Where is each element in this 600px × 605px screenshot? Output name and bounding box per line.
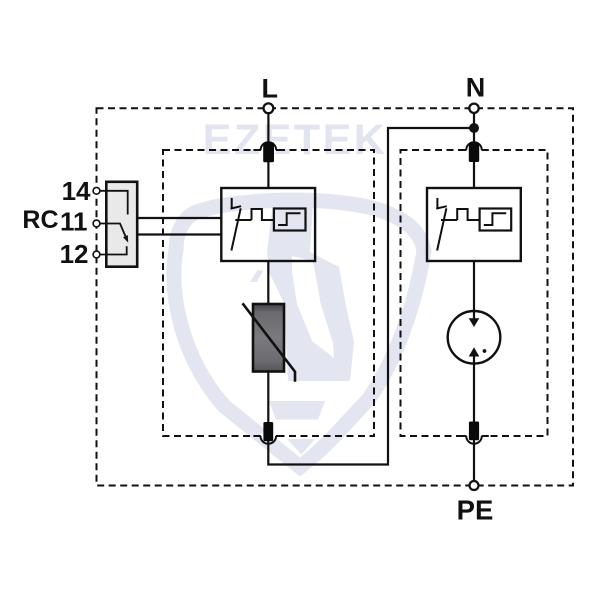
terminal N: [469, 104, 478, 113]
disconnector arc on N conductor (top): [459, 142, 489, 153]
wire N input: [473, 113, 475, 188]
svg-text:EZETEK: EZETEK: [203, 116, 388, 164]
disconnector arc on PE conductor (bottom): [459, 433, 489, 444]
U2 trigger step waveform: [484, 213, 506, 225]
wire gas discharge tube to PE fuse: [473, 356, 475, 421]
fuse disconnector N top: [469, 143, 479, 163]
gas discharge tube upper arrow: [469, 318, 480, 327]
terminal L: [264, 103, 274, 113]
svg-text:RC: RC: [22, 206, 58, 234]
U1 trigger box: [274, 209, 306, 231]
wire N SPD box to gas discharge tube: [473, 261, 475, 319]
wire PE fuse to PE terminal: [473, 440, 475, 481]
terminal circle 12: [93, 251, 100, 258]
U1 trigger step waveform: [278, 213, 300, 225]
U2 surge pulse waveform: [457, 209, 479, 220]
wire pair RC unit to SPD box: [137, 218, 221, 235]
outer dashed enclosure border: [97, 108, 574, 485]
fuse disconnector PE bottom: [469, 422, 479, 441]
U2 trigger box: [480, 209, 512, 231]
SPD spark-gap module U2 (N-PE): [427, 188, 521, 261]
RC contact 14 lead: [100, 191, 128, 215]
U1 switch blade: [231, 208, 240, 250]
remote signalling contact unit RC: [100, 182, 137, 267]
gas discharge tube lower arrow: [469, 347, 480, 356]
svg-text:L: L: [261, 73, 278, 103]
RC common 11 lead with moving contact: [100, 224, 126, 238]
wire varistor to bottom fuse: [267, 372, 269, 423]
U2 connection to trigger: [441, 219, 457, 221]
RC contact 12 lead: [100, 246, 127, 254]
disconnector arc on L branch (bottom): [253, 433, 283, 444]
wire from N junction to bottom of varistor branch: [268, 128, 474, 465]
gas discharge tube circle: [448, 311, 501, 364]
U2 enclosure box: [427, 188, 521, 261]
gas discharge tube dot: [483, 349, 487, 353]
junction node on N: [469, 123, 479, 133]
inner dashed box N-PE protection module: [401, 150, 548, 436]
U1 surge pulse waveform: [252, 209, 274, 220]
svg-text:11: 11: [60, 207, 88, 237]
U1 enclosure box: [221, 188, 315, 261]
wire SPD box to varistor: [267, 261, 269, 304]
SPD spark-gap module U1 (L): [221, 188, 315, 261]
inner dashed box L protection module: [163, 150, 374, 436]
watermark shield logo: [174, 200, 424, 467]
fuse disconnector L top: [263, 142, 274, 162]
terminal PE: [470, 481, 479, 490]
U2 switch blade: [437, 208, 446, 250]
U2 switch terminal stub: [436, 198, 438, 209]
svg-text:N: N: [466, 72, 486, 102]
terminal circle 14: [93, 187, 100, 194]
fuse disconnector L bottom: [263, 422, 273, 441]
svg-text:PE: PE: [457, 495, 494, 526]
U2 switch contact tick: [436, 206, 447, 208]
RC unit body: [106, 182, 137, 267]
U1 switch contact tick: [231, 206, 242, 208]
svg-text:12: 12: [60, 239, 89, 269]
disconnector arc on L conductor (top): [254, 142, 284, 153]
U1 switch terminal stub: [231, 198, 233, 209]
RC moving contact arrowhead: [123, 235, 128, 243]
gas discharge tube arrows group: [469, 318, 487, 356]
svg-text:14: 14: [62, 176, 91, 206]
terminal circle 11: [93, 220, 100, 227]
wire L input: [267, 113, 269, 188]
U1 connection to trigger: [235, 219, 251, 221]
varistor: [243, 303, 296, 381]
